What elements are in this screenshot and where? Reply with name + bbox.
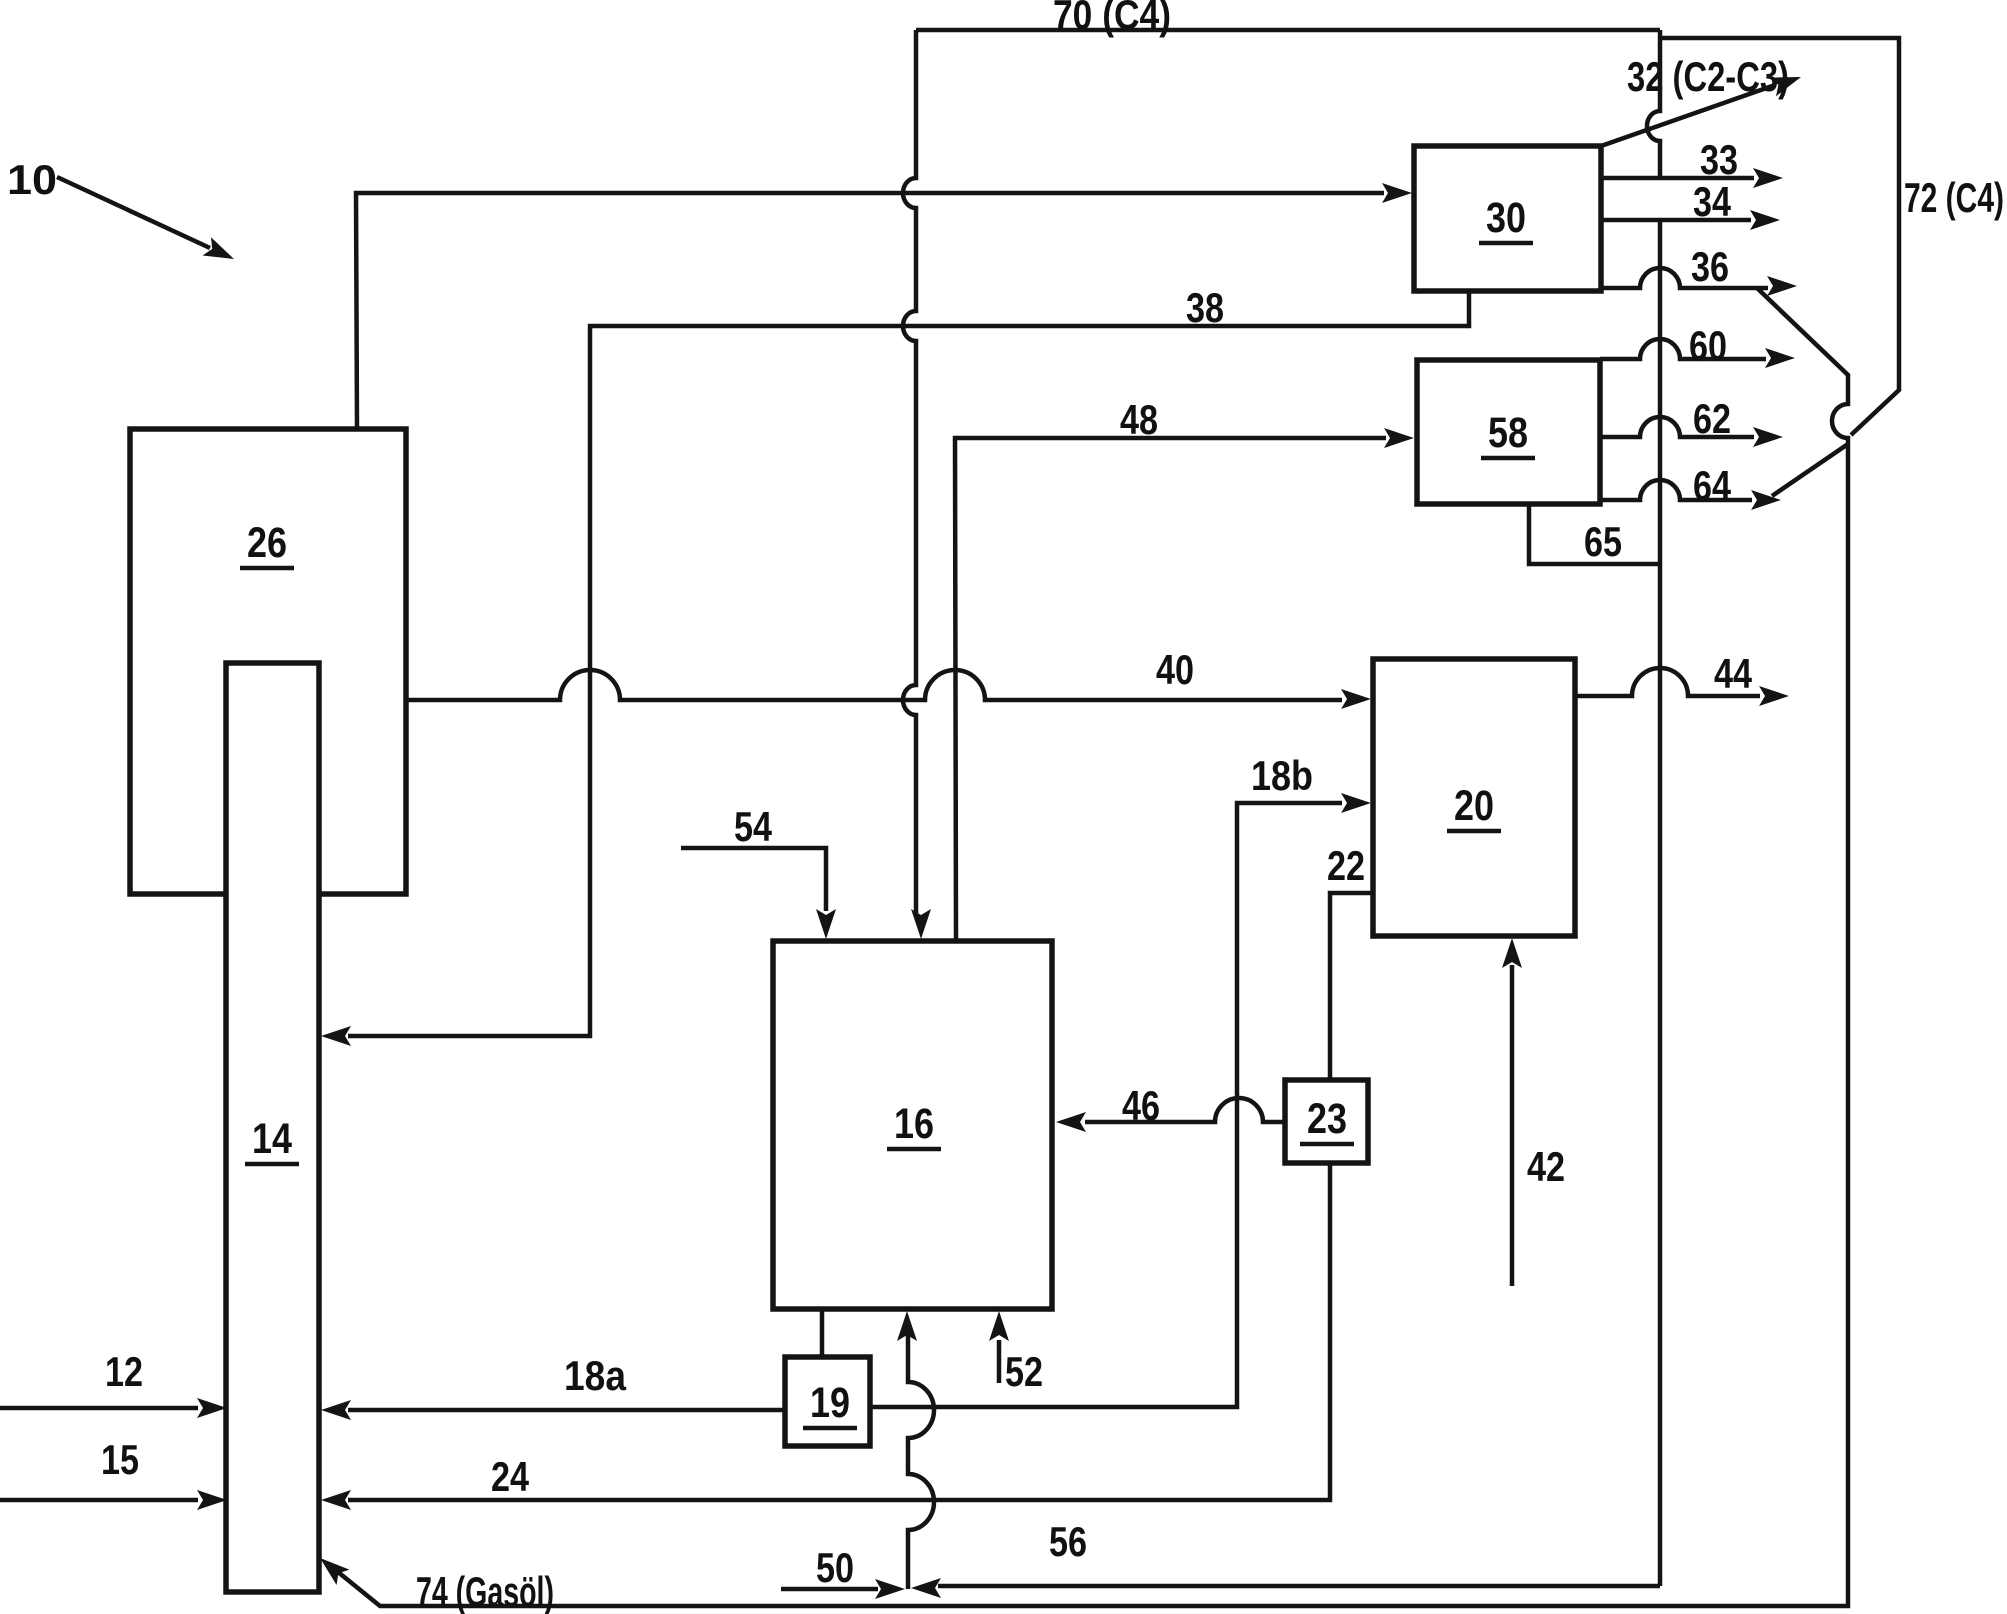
box 14: [226, 663, 319, 1592]
svg-text:46: 46: [1122, 1082, 1160, 1129]
svg-text:20: 20: [1454, 782, 1494, 830]
label 14: [245, 1115, 299, 1164]
svg-text:52: 52: [1005, 1348, 1043, 1395]
wire 32 diagonal from box 30 corner: [1601, 85, 1775, 146]
arrow 44 out: [1759, 686, 1789, 706]
arrow 64 out: [1751, 490, 1781, 510]
wire long C4 return vertical with hop over 32 diagonal and gap at 33/34: [1647, 30, 1660, 1586]
wire funnel vertical from 36 branch down to 74 line with hop: [338, 288, 1848, 1606]
box 58: [1417, 360, 1600, 504]
svg-text:62: 62: [1693, 395, 1731, 442]
arrow 62 out: [1753, 427, 1783, 447]
wire 54 feed into box 16: [681, 848, 826, 911]
arrow 70 into box 16 top: [911, 909, 931, 939]
arrow 18b into box 20: [1341, 793, 1371, 813]
svg-text:14: 14: [252, 1115, 292, 1163]
wire 65 from box 58 bottom to long vertical: [1529, 504, 1658, 564]
wire 56 from long vertical to junction: [938, 1584, 1660, 1589]
arrow 60 out: [1765, 348, 1795, 368]
svg-text:10: 10: [7, 156, 57, 203]
svg-text:54: 54: [734, 803, 773, 850]
label 26: [240, 519, 294, 568]
wire 46 from box 23 to box 16 with bump: [1085, 1098, 1285, 1122]
svg-text:42: 42: [1527, 1143, 1565, 1190]
wire stub box 16 to box 19: [820, 1309, 825, 1357]
wire 36 from box 30 bottom edge with bump: [1601, 268, 1768, 288]
wire 62 from box 58 with bump: [1600, 417, 1754, 437]
wire 64 from box 58 bottom edge with bump: [1600, 480, 1752, 500]
arrow 50 into junction: [875, 1579, 905, 1599]
wire 22 from box 20 through box 23 becoming 24 into box 14: [348, 893, 1373, 1500]
arrow 42 into box 20: [1502, 938, 1522, 968]
svg-text:64: 64: [1693, 462, 1732, 509]
svg-text:50: 50: [816, 1544, 854, 1591]
arrow 32 out: [1769, 68, 1804, 97]
arrow 56 into junction: [911, 1578, 941, 1598]
label 58: [1481, 409, 1535, 458]
wire 18b from box 19 up to box 20: [870, 803, 1342, 1407]
box 23: [1285, 1080, 1368, 1163]
wire 26 to 30 feed line: [356, 193, 1384, 429]
svg-text:72 (C4): 72 (C4): [1904, 174, 2004, 221]
box 16: [773, 941, 1052, 1309]
arrow 24 into box 14: [321, 1490, 351, 1510]
svg-text:22: 22: [1327, 842, 1365, 889]
wire 64 funnel diagonal: [1772, 444, 1848, 496]
arrow 48 into box 58: [1384, 428, 1414, 448]
svg-text:26: 26: [247, 519, 287, 567]
arrow pointer 10: [203, 237, 239, 268]
svg-text:65: 65: [1584, 518, 1622, 565]
svg-text:33: 33: [1700, 136, 1738, 183]
arrow 38 into box 14: [321, 1026, 351, 1046]
box 20: [1373, 659, 1575, 936]
wire 70 recycle vertical into unit 16 with bridge hops: [903, 30, 916, 913]
svg-text:16: 16: [894, 1100, 934, 1148]
label 30: [1479, 194, 1533, 243]
svg-text:32 (C2-C3): 32 (C2-C3): [1627, 53, 1789, 100]
svg-text:12: 12: [105, 1348, 143, 1395]
svg-text:15: 15: [101, 1436, 139, 1483]
arrow 12 into box 14: [197, 1398, 227, 1418]
svg-text:23: 23: [1307, 1095, 1347, 1143]
arrow 15 into box 14: [197, 1490, 227, 1510]
wire 15 feed into box 14: [0, 1498, 198, 1503]
arrow 34 out: [1750, 210, 1780, 230]
svg-text:36: 36: [1691, 243, 1729, 290]
wire junction riser into box 16 bottom with S-hops over 18a and 24: [908, 1335, 934, 1589]
wire 33 from box 30: [1601, 176, 1754, 181]
wire 52 feed into box 16 bottom: [997, 1340, 1002, 1383]
box 26: [130, 429, 406, 894]
box 30: [1414, 146, 1601, 291]
arrow 46 into box 16: [1056, 1112, 1086, 1132]
arrow 33 out: [1753, 168, 1783, 188]
svg-text:40: 40: [1156, 646, 1194, 693]
svg-text:24: 24: [491, 1453, 530, 1500]
svg-text:48: 48: [1120, 396, 1158, 443]
svg-text:18b: 18b: [1251, 752, 1313, 799]
arrow feed into box 30: [1382, 183, 1412, 203]
label 16: [887, 1100, 941, 1149]
arrow riser into box 16 bottom: [897, 1311, 917, 1341]
arrow 74 into box 14: [314, 1550, 350, 1585]
wire 50 feed to junction: [781, 1587, 878, 1592]
arrow 36 out: [1767, 276, 1797, 296]
svg-text:30: 30: [1486, 194, 1526, 242]
wire 12 feed into box 14: [0, 1406, 198, 1411]
svg-text:34: 34: [1693, 178, 1732, 225]
svg-text:60: 60: [1689, 322, 1727, 369]
svg-text:18a: 18a: [564, 1352, 627, 1399]
wire 40 from box 26 to box 20 with bumps: [406, 670, 1342, 700]
wire 18a from box 19 to box 14: [348, 1408, 785, 1413]
svg-text:19: 19: [810, 1379, 850, 1427]
wire 42 feed into box 20 bottom: [1510, 965, 1515, 1286]
label 19: [803, 1379, 857, 1428]
wire 60 from box 58 top edge with bump: [1600, 339, 1766, 359]
arrow 40 into box 20: [1341, 689, 1371, 709]
wire 48 from box 16 top to box 58: [955, 438, 1386, 941]
arrow 54 into box 16 top: [816, 909, 836, 939]
wire 72 (C4) right loop: [1660, 38, 1899, 435]
wire 38 from box 30 bottom to box 14: [348, 291, 1469, 1036]
arrow 18a into box 14: [321, 1400, 351, 1420]
pointer 10 diagonal: [57, 177, 210, 248]
svg-text:70 (C4): 70 (C4): [1053, 0, 1171, 38]
box 19: [785, 1357, 870, 1446]
svg-text:38: 38: [1186, 284, 1224, 331]
wire 34 from box 30: [1601, 218, 1751, 223]
label 20: [1447, 782, 1501, 831]
svg-text:56: 56: [1049, 1518, 1087, 1565]
svg-text:58: 58: [1488, 409, 1528, 457]
svg-text:44: 44: [1714, 650, 1753, 697]
svg-text:74 (Gasöl): 74 (Gasöl): [416, 1568, 554, 1614]
wire 44 from box 20 with bump: [1575, 668, 1760, 696]
label 23: [1300, 1095, 1354, 1144]
wire 70 (C4) top horizontal: [916, 28, 1660, 33]
arrow 52 into box 16: [989, 1311, 1009, 1341]
